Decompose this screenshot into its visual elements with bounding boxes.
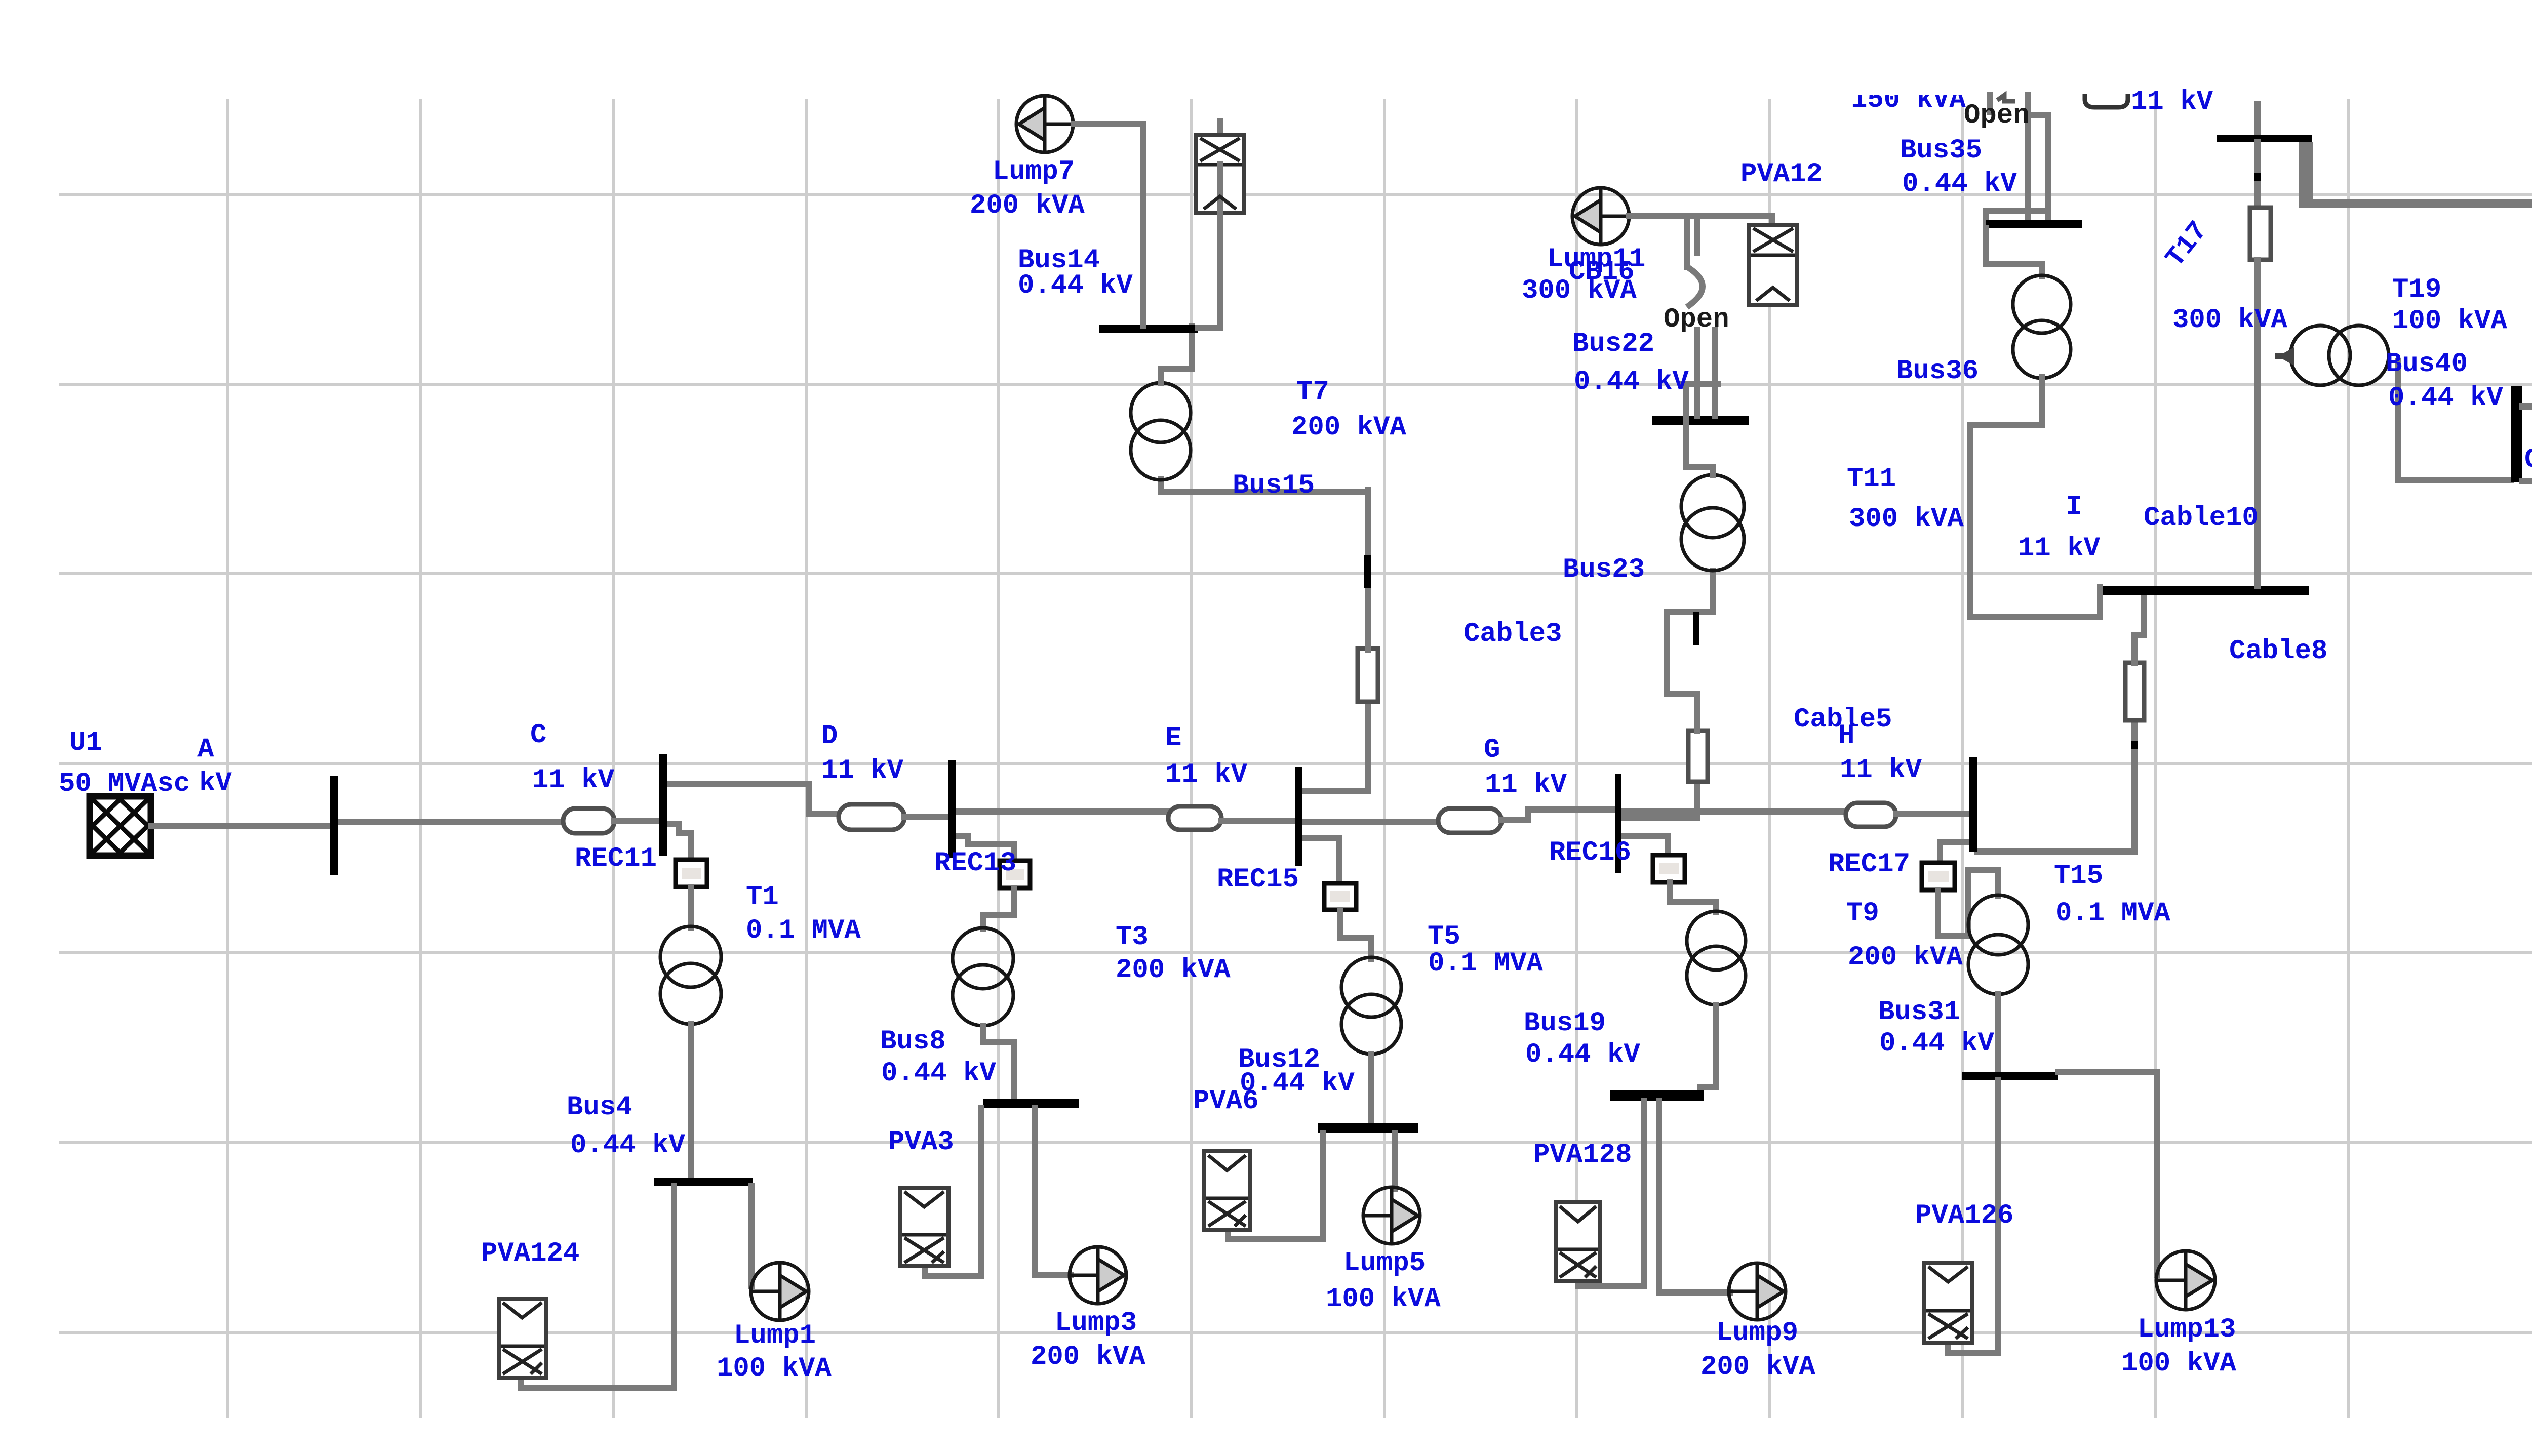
wire Bus33 down to cable10: [2254, 142, 2261, 209]
svg-text:PVA6: PVA6: [1193, 1086, 1259, 1117]
svg-text:C: C: [530, 720, 546, 751]
thick stub wire from Bus33 to right edge: [2299, 142, 2313, 199]
svg-text:PVA124: PVA124: [481, 1238, 579, 1269]
svg-text:Bus40: Bus40: [2386, 349, 2468, 380]
relay box REC17 (H tap): [1922, 863, 1955, 890]
svg-text:11 kV: 11 kV: [2018, 533, 2101, 564]
bus Bus8: [983, 1099, 1079, 1108]
fuse REC15: [1168, 806, 1221, 830]
relay box (G tap): [1653, 855, 1685, 882]
bus D: [948, 760, 956, 858]
transformer T13 (G tap): [1687, 911, 1746, 1005]
svg-text:kV: kV: [199, 768, 232, 799]
transformer T9: [1968, 895, 2028, 994]
bus Bus4: [654, 1178, 753, 1186]
pv array PVA6: [1204, 1151, 1250, 1230]
svg-text:PVA128: PVA128: [1533, 1140, 1632, 1170]
svg-text:T7: T7: [1296, 377, 1329, 408]
svg-text:Lump5: Lump5: [1343, 1248, 1426, 1279]
relay box (D tap): [1000, 861, 1030, 888]
svg-text:Open: Open: [1664, 304, 1729, 335]
svg-text:200 kVA: 200 kVA: [1291, 412, 1406, 443]
lumped load Lump9: [1729, 1263, 1786, 1320]
wire bus C to relay box: [667, 824, 691, 861]
svg-text:REC13: REC13: [934, 848, 1016, 879]
wire relay to T1: [688, 887, 694, 927]
wire transformer to Bus19: [1700, 1005, 1716, 1093]
svg-text:T3: T3: [1116, 922, 1149, 953]
wire T5 to Bus12: [1368, 1054, 1374, 1124]
svg-text:PVA12: PVA12: [1740, 159, 1823, 190]
wire Bus12 to Lump5: [1392, 1133, 1398, 1189]
svg-text:Bus22: Bus22: [1572, 329, 1654, 359]
transformer T7: [1131, 383, 1191, 480]
svg-text:0.44 kV: 0.44 kV: [1018, 270, 1133, 301]
pv array PVA3: [900, 1188, 948, 1266]
svg-text:100 kVA: 100 kVA: [717, 1353, 832, 1384]
wire T19 to Bus40: [2398, 361, 2511, 480]
breaker CB16 (open) below Lump7 wire: [1682, 219, 1718, 425]
wire Cable10 down to bus I: [2254, 260, 2261, 586]
wire T3 to Bus8: [983, 1026, 1014, 1100]
utility U1: [90, 796, 151, 856]
svg-text:200 kVA: 200 kVA: [1700, 1352, 1815, 1383]
cable Cable8: [2125, 663, 2144, 720]
svg-text:11 kV: 11 kV: [1840, 755, 1922, 786]
wire Bus31 to PVA126: [1948, 1080, 1998, 1353]
svg-text:100 kVA: 100 kVA: [2392, 306, 2507, 337]
transformer T11: [1681, 475, 1744, 571]
svg-text:0.44 kV: 0.44 kV: [1574, 367, 1689, 397]
wire Cable8 to bus I: [2134, 594, 2144, 663]
wire REC11 to bus C: [614, 818, 660, 824]
bus I: [2103, 586, 2309, 595]
wire bus E to Cable3: [1302, 704, 1368, 791]
wire relay to transformer: [1670, 882, 1716, 912]
svg-text:11 kV: 11 kV: [1485, 770, 1567, 800]
svg-text:11 kV: 11 kV: [1165, 759, 1248, 790]
svg-text:REC11: REC11: [575, 843, 657, 874]
bus Bus31: [1962, 1072, 2058, 1080]
svg-text:300 kVA: 300 kVA: [1522, 275, 1637, 306]
svg-text:Bus4: Bus4: [567, 1092, 632, 1123]
svg-text:200 kVA: 200 kVA: [970, 190, 1085, 221]
wire bus G to relay box: [1621, 836, 1668, 856]
svg-text:11 kV: 11 kV: [532, 765, 615, 796]
svg-text:0.44 kV: 0.44 kV: [2388, 383, 2503, 414]
fuse stub above Bus35 right: [2085, 94, 2128, 107]
svg-text:T15: T15: [2054, 861, 2103, 892]
node Bus23: [1693, 612, 1699, 645]
bus Bus35: [1986, 220, 2082, 228]
bus Bus22: [1652, 416, 1749, 425]
wire REC17 to bus H: [1896, 811, 1970, 817]
bus H: [1969, 757, 1977, 852]
svg-text:REC17: REC17: [1828, 849, 1910, 880]
bus Bus19: [1610, 1090, 1704, 1101]
bus Bus33: [2217, 135, 2312, 142]
lumped load Lump7: [1016, 96, 1073, 152]
svg-text:REC15: REC15: [1217, 864, 1299, 895]
cable Cable3: [1358, 649, 1378, 702]
wire Bus8 to Lump3: [1035, 1108, 1071, 1275]
pv array PVA126: [1924, 1263, 1972, 1343]
wire bus G to REC17: [1621, 808, 1847, 815]
lumped load Lump13: [2156, 1251, 2215, 1310]
fuse REC16: [1438, 808, 1501, 833]
wire relay to T9: [1938, 870, 1998, 936]
bus Bus40: [2511, 386, 2522, 482]
svg-text:Bus8: Bus8: [880, 1026, 946, 1057]
svg-text:0.44 kV: 0.44 kV: [1525, 1039, 1640, 1070]
svg-text:Bus36: Bus36: [1896, 356, 1979, 387]
svg-text:Bus31: Bus31: [1878, 997, 1960, 1028]
pv array PVA1: [1196, 122, 1244, 328]
svg-text:Bus35: Bus35: [1900, 135, 1982, 166]
fuse REC11: [563, 808, 614, 833]
wire Lump7 to Bus14: [1074, 124, 1143, 326]
svg-text:A: A: [197, 734, 214, 765]
svg-text:PVA126: PVA126: [1915, 1200, 2013, 1231]
svg-text:0.44 kV: 0.44 kV: [1902, 169, 2017, 199]
pv array PVA12: [1749, 216, 1797, 305]
svg-text:11 kV: 11 kV: [821, 755, 904, 786]
svg-text:0.1 MVA: 0.1 MVA: [2055, 898, 2170, 929]
svg-text:CB18: CB18: [2524, 444, 2532, 475]
wire REC16 to bus G: [1501, 810, 1616, 820]
wire Bus15 to T7: [1161, 479, 1368, 492]
svg-text:T5: T5: [1428, 921, 1460, 952]
wire REC13 to bus D: [904, 814, 949, 820]
svg-text:D: D: [821, 721, 838, 752]
svg-text:PVA3: PVA3: [888, 1127, 954, 1158]
bus Bus12: [1318, 1123, 1418, 1133]
bus G: [1615, 774, 1621, 873]
svg-text:Lump13: Lump13: [2138, 1314, 2236, 1345]
svg-text:Lump1: Lump1: [734, 1320, 816, 1351]
wire bus H to Cable8: [1977, 721, 2134, 852]
fuse REC13: [839, 804, 904, 830]
lumped load Lump3: [1070, 1247, 1126, 1304]
arrow stub left of T19: [2275, 353, 2292, 359]
svg-text:E: E: [1165, 723, 1181, 754]
wire bus C to REC13: [667, 784, 840, 814]
node tick on Cable10: [2254, 173, 2261, 181]
svg-text:0.1 MVA: 0.1 MVA: [746, 915, 861, 946]
transformer (below Bus35): [2013, 275, 2071, 378]
wire bus G to Cable5: [1621, 783, 1697, 818]
wire Bus19 to Lump9: [1659, 1101, 1730, 1292]
wire T7 to Bus14: [1161, 327, 1192, 383]
wire Bus31 to Lump13: [2058, 1072, 2157, 1275]
wire T1 to Bus4: [688, 1024, 694, 1179]
wire bus H to relay box: [1940, 842, 1970, 864]
svg-text:100 kVA: 100 kVA: [2121, 1348, 2236, 1379]
svg-text:0.44 kV: 0.44 kV: [1879, 1028, 1994, 1059]
wire bus D to REC15: [956, 808, 1169, 815]
svg-text:H: H: [1838, 720, 1854, 751]
svg-text:300 kVA: 300 kVA: [2172, 305, 2287, 336]
wire relay to T5: [1340, 910, 1371, 959]
pv array PVA124: [499, 1299, 546, 1378]
transformer T1: [660, 926, 721, 1024]
svg-text:Cable10: Cable10: [2144, 503, 2259, 534]
svg-text:Bus19: Bus19: [1524, 1008, 1606, 1039]
svg-text:100 kVA: 100 kVA: [1326, 1284, 1441, 1315]
wire bus D to relay box: [956, 836, 1014, 862]
node tick on Cable8 wire: [2131, 741, 2138, 749]
wire Lump11 to PVA12: [1629, 213, 1772, 219]
wire Bus4 to PVA124: [521, 1186, 674, 1388]
wire REC15 to bus E: [1221, 818, 1296, 824]
wire T9 to Bus31: [1995, 994, 2001, 1073]
svg-text:11 kV: 11 kV: [2131, 87, 2213, 117]
cable Cable5: [1688, 731, 1708, 782]
svg-text:50 MVAsc: 50 MVAsc: [59, 769, 190, 799]
svg-text:T19: T19: [2392, 274, 2441, 305]
breaker CB18 (open) wire Bus40 to PVA20: [2522, 465, 2532, 481]
svg-text:T9: T9: [1846, 898, 1879, 929]
svg-text:I: I: [2066, 492, 2082, 522]
wire Bus12 to PVA6: [1228, 1133, 1323, 1239]
svg-text:300 kVA: 300 kVA: [1849, 504, 1964, 535]
svg-text:200 kVA: 200 kVA: [1031, 1342, 1145, 1372]
svg-text:0.1 MVA: 0.1 MVA: [1428, 948, 1543, 979]
open device above Bus35: [1986, 95, 2048, 238]
svg-text:REC16: REC16: [1549, 837, 1631, 868]
node Bus15: [1364, 555, 1371, 588]
svg-text:Lump9: Lump9: [1716, 1318, 1798, 1349]
wire Bus19 to PVA128: [1578, 1101, 1644, 1286]
wire Bus40 to Lump17: [2522, 357, 2532, 407]
lumped load Lump1: [751, 1263, 809, 1320]
pv array PVA128: [1556, 1202, 1600, 1281]
svg-text:Cable3: Cable3: [1463, 619, 1562, 650]
wire U1 to bus A: [151, 823, 330, 829]
svg-text:T1: T1: [746, 882, 779, 913]
wire transformer to Bus36 node and bus I: [1970, 377, 2100, 617]
svg-text:0.44 kV: 0.44 kV: [570, 1130, 685, 1161]
wire relay to T3: [983, 888, 1014, 929]
svg-text:Cable8: Cable8: [2229, 636, 2327, 667]
bus C: [659, 754, 667, 856]
svg-text:Lump3: Lump3: [1055, 1308, 1137, 1339]
lumped load Lump5: [1363, 1187, 1420, 1244]
bus Bus14: [1099, 325, 1198, 333]
transformer T19 (horizontal): [2290, 326, 2389, 385]
relay box (E tap): [1324, 883, 1356, 910]
transformer T5: [1341, 957, 1401, 1054]
svg-text:Bus23: Bus23: [1563, 554, 1645, 585]
svg-text:0.44 kV: 0.44 kV: [881, 1058, 996, 1089]
wire Bus8 to PVA3: [925, 1108, 981, 1276]
svg-text:T11: T11: [1847, 464, 1896, 495]
svg-text:200 kVA: 200 kVA: [1116, 955, 1231, 986]
wire Cable3 up to Bus15 corner: [1365, 490, 1371, 650]
wire Bus35 to transformer: [1986, 228, 2042, 276]
wire Bus4 to Lump1: [748, 1186, 755, 1286]
wire bus E to REC16: [1302, 819, 1439, 825]
wire Cable5 to Bus23 jog: [1667, 571, 1713, 731]
wire bus A to REC11: [338, 819, 563, 825]
svg-text:Open: Open: [1964, 100, 2030, 131]
bus A: [330, 776, 338, 875]
bus E: [1295, 767, 1302, 866]
cable Cable10: [2250, 208, 2271, 260]
wire bus E to relay box: [1302, 838, 1339, 884]
fuse REC17: [1846, 803, 1896, 827]
transformer T3: [953, 928, 1013, 1026]
svg-text:200 kVA: 200 kVA: [1848, 942, 1963, 973]
svg-text:G: G: [1484, 735, 1500, 765]
svg-text:Bus15: Bus15: [1233, 470, 1315, 501]
svg-text:U1: U1: [69, 727, 102, 758]
lumped load Lump11: [1572, 188, 1629, 245]
relay box (C tap): [676, 860, 707, 887]
wire T11 to Bus22: [1686, 423, 1713, 475]
wire above Bus33: [2254, 104, 2261, 136]
svg-text:Lump7: Lump7: [993, 156, 1075, 187]
